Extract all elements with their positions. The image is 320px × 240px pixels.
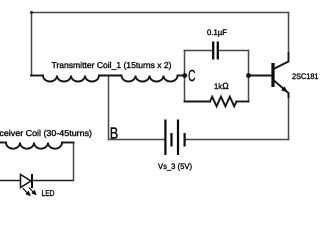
LED arrow 2: [29, 188, 36, 195]
node base junction dot: [246, 73, 251, 78]
LED D1 cathode bar: [31, 174, 33, 188]
transmitter coil L1 half A: [43, 76, 99, 82]
wire top: [32, 12, 289, 14]
corner dot top-left: [30, 11, 33, 14]
svg-text:C: C: [188, 68, 196, 85]
resistor R1 zigzag: [210, 97, 236, 107]
transistor Q1 bar: [271, 63, 274, 87]
wire emitter vertical lower: [288, 97, 290, 140]
wire cap right: [220, 50, 249, 52]
svg-text:LED: LED: [42, 188, 55, 198]
svg-text:Vs_3 (5V): Vs_3 (5V): [158, 162, 192, 171]
wire left vertical: [31, 13, 33, 76]
svg-text:B: B: [110, 126, 119, 143]
wire RC left vertical: [184, 51, 186, 102]
LED arrow 1: [23, 188, 30, 195]
wire coil lead left: [31, 75, 43, 77]
wire resistor right: [236, 101, 248, 103]
svg-text:0.1µF: 0.1µF: [207, 28, 227, 37]
wire bottom left (B corner to battery): [109, 139, 165, 141]
transistor Q1 emitter lead: [275, 81, 289, 97]
receiver coil lead left: [0, 142, 6, 144]
battery Vs_3 plates: [165, 120, 184, 156]
wire resistor left: [185, 101, 211, 103]
wire receiver right vertical: [73, 143, 75, 181]
wire collector vertical upper: [288, 13, 290, 54]
wire bottom right (battery to emitter): [186, 139, 289, 141]
node C junction dot: [182, 73, 187, 78]
svg-text:Ω: Ω: [222, 81, 229, 91]
wire RC right vertical: [248, 51, 250, 102]
receiver coil L2: [6, 143, 62, 149]
bold component strokes: [0, 53, 289, 149]
wire cap left: [185, 50, 212, 52]
transmitter coil L1 half B: [122, 76, 178, 82]
wire center tap down to B: [108, 76, 110, 140]
transistor Q1 emitter arrowhead: [281, 86, 287, 92]
receiver coil lead right: [62, 142, 74, 144]
transistor Q1 collector lead: [275, 53, 289, 69]
wire coil to node C: [178, 75, 185, 77]
wire LED anode: [0, 180, 21, 182]
svg-text:2SC181: 2SC181: [292, 72, 319, 81]
svg-text:Receiver Coil (30-45turns): Receiver Coil (30-45turns): [0, 128, 92, 138]
svg-text:Transmitter Coil_1 (15turns x: Transmitter Coil_1 (15turns x 2): [52, 60, 172, 70]
wire center tap span: [99, 75, 122, 77]
capacitor C1 plates: [213, 42, 218, 60]
LED D1 triangle: [21, 175, 32, 188]
thin gray interconnect wires: [32, 13, 289, 181]
wire base (node to transistor): [249, 75, 272, 77]
wire LED cathode to corner: [33, 180, 74, 182]
